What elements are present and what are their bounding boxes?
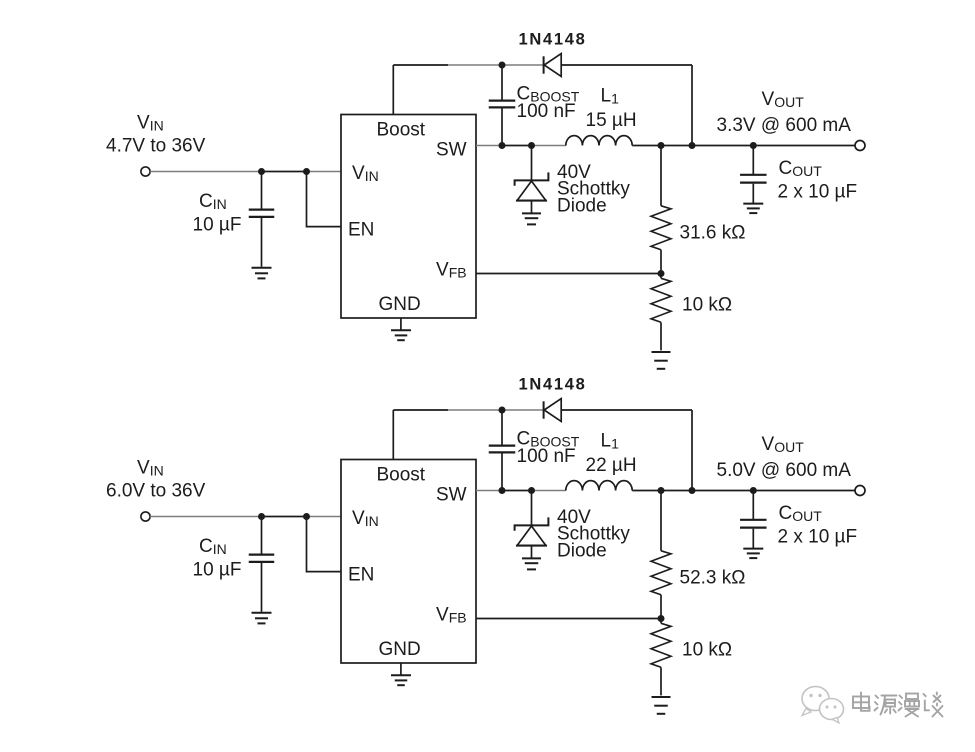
wire SW rail (476, 145, 502, 147)
svg-text:52.3 kΩ: 52.3 kΩ (680, 568, 746, 589)
svg-text:100 nF: 100 nF (517, 446, 576, 467)
wire EN branch (307, 517, 342, 572)
capacitor CBOOST (501, 410, 503, 445)
svg-text:10 kΩ: 10 kΩ (682, 640, 732, 661)
svg-text:1N4148: 1N4148 (519, 376, 587, 394)
diode D2 schottky (531, 491, 533, 525)
resistor R2 (660, 274, 662, 279)
capacitor CIN (261, 517, 263, 554)
watermark text dian (electric) (853, 693, 870, 711)
junction VIN/EN (303, 513, 310, 520)
ground R2 (652, 696, 671, 698)
svg-text:5.0V @ 600 mA: 5.0V @ 600 mA (717, 460, 852, 481)
junction SW/R1 (658, 142, 665, 149)
capacitor CBOOST (501, 65, 503, 100)
wire VFB (476, 618, 661, 620)
junction SW/diode drop (689, 142, 696, 149)
junction SW/schottky (528, 487, 535, 494)
svg-text:4.7V to 36V: 4.7V to 36V (106, 136, 206, 157)
diode D1 1N4148 (543, 56, 545, 73)
svg-text:SW: SW (436, 140, 467, 161)
resistor R1 (660, 491, 662, 551)
svg-text:EN: EN (348, 565, 374, 586)
junction VFB/R1/R2 (658, 615, 665, 622)
svg-text:Boost: Boost (377, 465, 426, 486)
ground CIN (252, 612, 272, 614)
junction SW/CBOOST (499, 487, 506, 494)
watermark text man (overflow) (899, 694, 920, 717)
wire IC GND pin (400, 318, 402, 330)
wire IC GND pin (400, 663, 402, 675)
svg-text:3.3V @ 600 mA: 3.3V @ 600 mA (717, 115, 852, 136)
wire Boost riser (392, 65, 394, 115)
svg-text:10 kΩ: 10 kΩ (682, 295, 732, 316)
wire boost top rail (393, 64, 448, 66)
svg-text:2 x 10 µF: 2 x 10 µF (778, 182, 858, 203)
ground schottky (522, 557, 541, 559)
svg-text:SW: SW (436, 485, 467, 506)
ground R2 (652, 351, 671, 353)
ground schottky (522, 212, 541, 214)
junction VIN/CIN (258, 168, 265, 175)
svg-text:Diode: Diode (557, 196, 607, 217)
svg-text:6.0V to 36V: 6.0V to 36V (106, 481, 206, 502)
capacitor COUT (752, 491, 754, 520)
node VOUT output terminal (855, 141, 865, 151)
diode D2 schottky (531, 146, 533, 180)
resistor R1 (660, 146, 662, 206)
ground IC GND (391, 329, 411, 331)
wire boost top rail (393, 409, 448, 411)
wire SW rail (476, 490, 502, 492)
junction SW/diode drop (689, 487, 696, 494)
wire diode to output drop (691, 410, 693, 491)
ground IC GND (391, 674, 411, 676)
watermark text yuan (source) (875, 696, 897, 715)
node VIN input terminal (141, 512, 150, 521)
svg-text:GND: GND (379, 294, 421, 315)
junction SW/schottky (528, 142, 535, 149)
junction VIN/CIN (258, 513, 265, 520)
junction boost/CBOOST (499, 407, 506, 414)
junction boost/CBOOST (499, 62, 506, 69)
wire VIN rail (150, 171, 261, 173)
svg-text:Boost: Boost (377, 120, 426, 141)
inductor L1 (566, 136, 632, 146)
ground COUT (743, 203, 763, 205)
junction VFB/R1/R2 (658, 270, 665, 277)
node VOUT output terminal (855, 486, 865, 496)
junction SW/COUT (750, 142, 757, 149)
svg-text:2 x 10 µF: 2 x 10 µF (778, 527, 858, 548)
watermark text tan (talk) (924, 693, 943, 717)
diode D1 1N4148 (543, 401, 545, 418)
svg-text:100 nF: 100 nF (517, 101, 576, 122)
ground CIN (252, 267, 272, 269)
svg-text:15 µH: 15 µH (586, 110, 637, 131)
regulator IC U1 (341, 460, 476, 664)
junction VIN/EN (303, 168, 310, 175)
svg-text:31.6 kΩ: 31.6 kΩ (680, 223, 746, 244)
svg-text:22 µH: 22 µH (586, 455, 637, 476)
watermark logo chat bubbles (802, 687, 844, 724)
svg-text:EN: EN (348, 220, 374, 241)
wire diode to output drop (691, 65, 693, 146)
regulator IC U1 (341, 115, 476, 319)
wire Boost riser (392, 410, 394, 460)
node VIN input terminal (141, 167, 150, 176)
svg-text:10 µF: 10 µF (193, 215, 242, 236)
ground COUT (743, 548, 763, 550)
wire VFB (476, 273, 661, 275)
junction SW/CBOOST (499, 142, 506, 149)
capacitor CIN (261, 172, 263, 209)
inductor L1 (566, 481, 632, 491)
junction SW/R1 (658, 487, 665, 494)
svg-text:1N4148: 1N4148 (519, 31, 587, 49)
capacitor COUT (752, 146, 754, 175)
svg-text:Diode: Diode (557, 541, 607, 562)
wire VIN rail (150, 516, 261, 518)
svg-text:10 µF: 10 µF (193, 560, 242, 581)
junction SW/COUT (750, 487, 757, 494)
resistor R2 (660, 619, 662, 624)
wire EN branch (307, 172, 342, 227)
svg-text:GND: GND (379, 639, 421, 660)
